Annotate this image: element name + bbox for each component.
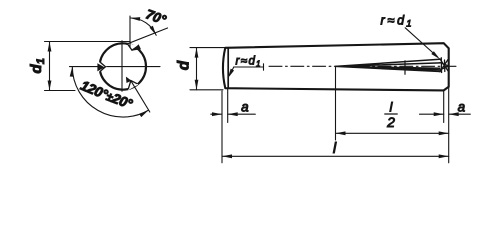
angle 70: vertical leg line xyxy=(129,16,131,48)
side view: dimension d extension top xyxy=(190,47,225,49)
label 120 plus-minus 20 degrees on arc path xyxy=(79,88,135,110)
dimension a left: arrow right-pointing xyxy=(212,112,222,116)
cross-section view: horizontal centerline xyxy=(70,66,161,68)
side view: dimension d extension bottom xyxy=(190,89,223,91)
pin centerline (dash-dot) xyxy=(269,65,456,67)
svg-text:d: d xyxy=(176,60,193,70)
dimension a left: dimension line with tails xyxy=(211,113,222,115)
angle 120: arc arrow top-left xyxy=(70,66,74,76)
dimension l/2: arrow right xyxy=(439,131,449,135)
leader r=d1 left: arrowhead xyxy=(226,69,234,80)
angle 70: arc xyxy=(130,18,156,35)
angle 120: arc xyxy=(72,67,148,117)
angle 70: arc arrow right xyxy=(150,26,158,37)
dimension a right: extension line (chamfer) xyxy=(443,92,445,123)
svg-text:r≈d1: r≈d1 xyxy=(236,56,262,69)
label l/2 fraction xyxy=(385,100,397,131)
svg-text:l: l xyxy=(390,100,394,115)
side view: dimension d line xyxy=(196,48,198,90)
pin left chamfer line xyxy=(227,48,229,88)
dimension d1: arrow up xyxy=(48,42,52,52)
dimension a right: arrow right-pointing xyxy=(434,112,444,116)
svg-text:a: a xyxy=(458,100,466,115)
dimension a left: extension line (chamfer) xyxy=(227,89,229,123)
dimension a right: arrow left-pointing xyxy=(449,112,459,116)
taper groove lines (fan from mid-length) xyxy=(336,59,441,71)
dimension d: arrow down xyxy=(195,80,199,90)
leader r=d1 left: end tick xyxy=(263,64,265,70)
dimension d1: extension line top xyxy=(45,41,131,43)
pin cross-section circle xyxy=(100,43,146,89)
dimension a left: arrow left-pointing xyxy=(228,112,238,116)
dimension l/2: arrow left xyxy=(336,131,346,135)
groove flap top (displaced material) xyxy=(132,44,141,50)
dimension l: dimension line xyxy=(222,155,449,157)
leader r=d1 left: leader line xyxy=(229,67,233,75)
dimension d1: dimension line xyxy=(49,42,51,91)
groove flap bottom-right (displaced material) xyxy=(126,77,132,83)
groove flap left (displaced material) xyxy=(97,63,104,71)
angle 70: arc arrow left xyxy=(130,16,140,21)
groove end detail lines at right end xyxy=(440,58,448,73)
groove notch top (V-cut) xyxy=(127,43,138,51)
svg-text:a: a xyxy=(241,100,249,115)
leader r=d1 top: arrowhead xyxy=(431,51,441,61)
dimension l/2: extension line at mid-length xyxy=(335,66,337,140)
dimension a left: extension line (pin end, long) xyxy=(221,91,223,163)
svg-text:r≈d1: r≈d1 xyxy=(381,14,414,30)
leader r=d1 top: leader line xyxy=(405,28,437,57)
cross-section view: vertical centerline xyxy=(121,41,123,92)
angle 120: leg line to lower right xyxy=(131,81,150,112)
dimension d1: extension line bottom xyxy=(45,90,76,92)
svg-text:d1: d1 xyxy=(28,58,47,73)
centerline tick mark xyxy=(404,61,406,75)
svg-text:70°: 70° xyxy=(144,7,169,28)
dimension l: arrow left xyxy=(222,154,232,158)
groove notch bottom-right (V-cut) xyxy=(128,80,138,91)
pin outline (side view) xyxy=(223,43,449,90)
dimension l: arrow right xyxy=(439,154,449,158)
svg-text:2: 2 xyxy=(386,114,395,130)
leader r=d1 left: underline xyxy=(234,66,264,68)
angle 120: arc arrow bottom-right xyxy=(139,109,149,118)
dimension l/2: dimension line xyxy=(336,132,449,134)
dimension a right: extension line (pin end, long) xyxy=(448,88,450,163)
groove notch left (V-cut) xyxy=(98,61,107,72)
dimension d1: arrow down xyxy=(48,81,52,91)
dimension d: arrow up xyxy=(195,48,199,58)
dimension a right: dimension line with tails xyxy=(420,113,444,115)
angle 70: angled leg line xyxy=(126,28,167,44)
svg-text:l: l xyxy=(333,140,337,157)
